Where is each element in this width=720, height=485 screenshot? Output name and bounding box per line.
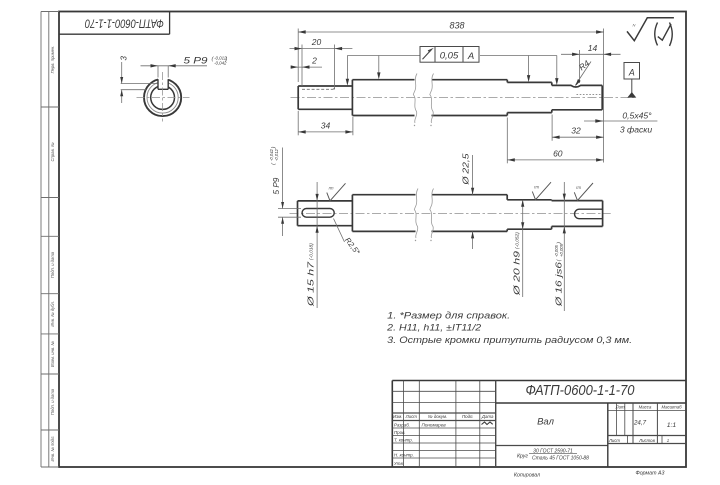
svg-text:Ø 15 h7: Ø 15 h7 (306, 262, 316, 308)
svg-text:Подп. и дата: Подп. и дата (50, 388, 55, 415)
svg-text:): ) (271, 146, 277, 149)
svg-text:Копировал: Копировал (514, 473, 540, 479)
svg-text:А: А (467, 51, 474, 62)
svg-text:Вал: Вал (537, 416, 555, 427)
svg-text:Н. контр.: Н. контр. (394, 452, 414, 457)
svg-text:0,5х45°: 0,5х45° (622, 111, 652, 121)
svg-text:+0,005: +0,005 (559, 243, 564, 257)
svg-text:5 Р9: 5 Р9 (272, 177, 281, 194)
svg-text:-0,042: -0,042 (269, 148, 274, 161)
svg-text:Взам. инв. №: Взам. инв. № (50, 341, 55, 367)
svg-text:N: N (633, 23, 636, 28)
svg-text:Инв. № дубл.: Инв. № дубл. (50, 301, 55, 327)
svg-text:Изм.: Изм. (393, 414, 402, 419)
svg-text:3: 3 (119, 55, 128, 60)
svg-text:Перв. примен.: Перв. примен. (50, 46, 55, 74)
svg-text:Ø 22,5: Ø 22,5 (461, 153, 471, 186)
svg-text:rm: rm (329, 186, 334, 191)
svg-text:ФАТП-0600-1-1-70: ФАТП-0600-1-1-70 (84, 17, 163, 29)
svg-text:Масштаб: Масштаб (661, 405, 682, 410)
svg-text:60: 60 (553, 148, 563, 158)
svg-text:Формат А3: Формат А3 (636, 471, 665, 477)
svg-text:rm: rm (534, 184, 539, 189)
svg-text:14: 14 (588, 43, 598, 53)
svg-text:Сталь 45 ГОСТ 1050-88: Сталь 45 ГОСТ 1050-88 (532, 456, 589, 462)
svg-text:20: 20 (311, 37, 322, 47)
svg-text:0,05: 0,05 (440, 51, 459, 62)
svg-text:Пров.: Пров. (394, 430, 406, 435)
svg-text:Листов: Листов (638, 438, 655, 443)
svg-text:): ) (557, 242, 563, 245)
svg-text:-0,012: -0,012 (274, 148, 279, 161)
svg-text:(-0,052): (-0,052) (515, 232, 521, 249)
svg-text:rm: rm (576, 185, 581, 190)
svg-text:34: 34 (321, 121, 331, 131)
svg-text:Лист: Лист (608, 438, 620, 443)
svg-text:Справ. №: Справ. № (50, 142, 55, 161)
svg-text:(-0,018): (-0,018) (309, 243, 315, 260)
svg-text:Ø 16 js6: Ø 16 js6 (554, 262, 564, 308)
svg-text:Разраб.: Разраб. (394, 422, 410, 427)
svg-text:838: 838 (449, 21, 464, 31)
svg-text:2. Н11, h11, ±IT11/2: 2. Н11, h11, ±IT11/2 (386, 322, 481, 332)
svg-text:3. Острые кромки притупить: 3. Острые кромки притупить радиусом 0,3 … (387, 335, 632, 345)
svg-text:Лист: Лист (405, 414, 418, 419)
svg-text:Масса: Масса (639, 405, 652, 410)
svg-text:ФАТП-0600-1-1-70: ФАТП-0600-1-1-70 (526, 383, 635, 399)
svg-text:1. *Размер для справок.: 1. *Размер для справок. (387, 310, 510, 320)
svg-text:Дата: Дата (481, 414, 494, 419)
svg-text:Пономарев: Пономарев (422, 422, 447, 427)
svg-text:Т. контр.: Т. контр. (394, 437, 413, 442)
svg-text:): ) (225, 56, 228, 62)
svg-text:Подп.: Подп. (462, 414, 474, 419)
svg-text:Утв.: Утв. (394, 461, 404, 466)
svg-text:Подп. и дата: Подп. и дата (50, 251, 55, 278)
svg-text:Инв. № подл.: Инв. № подл. (50, 436, 55, 462)
svg-text:№ докум.: № докум. (428, 414, 447, 419)
svg-text:2: 2 (311, 56, 317, 66)
svg-text:Круг: Круг (517, 454, 528, 460)
svg-text:1:1: 1:1 (667, 422, 677, 429)
svg-text:5 Р9: 5 Р9 (184, 56, 209, 67)
svg-text:Ø 20 h9: Ø 20 h9 (512, 251, 522, 297)
svg-text:32: 32 (571, 126, 581, 136)
svg-text:Лит.: Лит. (615, 405, 626, 410)
svg-text:24,7: 24,7 (633, 420, 647, 427)
svg-text:-0,005: -0,005 (554, 244, 559, 257)
svg-text:3 фаски: 3 фаски (620, 125, 652, 135)
svg-text:А: А (628, 68, 635, 78)
